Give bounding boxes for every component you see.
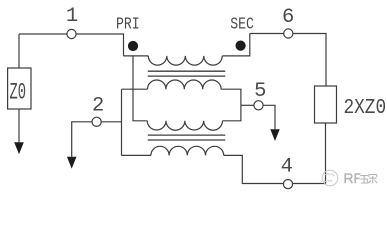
svg-text:2: 2 <box>92 94 104 117</box>
wire winding 2 right to right connector <box>221 89 241 121</box>
polarity dot PRI <box>128 41 138 51</box>
wire node 2 to rail <box>101 121 121 123</box>
watermark glyph wan <box>360 176 368 183</box>
node 4 <box>283 180 292 189</box>
wire left vertical drop to Z0 <box>18 34 20 68</box>
watermark text RF <box>345 174 360 183</box>
wire node 4 to winding 4 right end <box>224 155 284 183</box>
wire node 5 to ground arrow <box>263 105 275 129</box>
wire top-left rail from Z0 drop to node 1 <box>19 33 67 35</box>
transformer T2 secondary winding (4 arcs, bulge up) <box>151 146 224 155</box>
wire rail to winding 2 left <box>122 88 148 90</box>
svg-text:5: 5 <box>254 80 266 103</box>
wire winding 4 left end to junction rail <box>122 154 151 156</box>
wire right connector to node 5 <box>241 104 254 106</box>
svg-text:PRI: PRI <box>116 15 140 34</box>
ground arrow below Z0 <box>14 142 24 154</box>
svg-text:SEC: SEC <box>230 15 254 34</box>
transformer T1 core lines <box>148 71 226 76</box>
transformer T2 primary winding (4 arcs, bulge down) <box>147 121 222 130</box>
polarity dot SEC <box>236 41 246 51</box>
wire 2XZ0 box bottom to node 4 <box>293 123 326 184</box>
wire left junction rail (node2/W2/W4) <box>121 89 123 155</box>
node 1 <box>67 29 76 38</box>
wire SEC corner to node 6 <box>250 33 284 35</box>
wire PRI horizontal to winding 1 <box>124 55 149 57</box>
wire winding 1 to SEC corner <box>222 34 250 56</box>
svg-text:Z0: Z0 <box>10 80 27 106</box>
svg-text:2XZ0: 2XZ0 <box>344 97 387 120</box>
ground arrow below node 2 <box>67 157 77 169</box>
node 2 <box>92 117 101 126</box>
transformer T1 secondary winding (4 arcs, bulge up) <box>148 80 222 89</box>
svg-text:6: 6 <box>282 6 294 29</box>
transformer T2 core lines <box>148 135 226 140</box>
wire winding 3 left to PRI-bottom vertical <box>133 56 147 121</box>
svg-text:1: 1 <box>66 5 78 28</box>
ground arrow below node 5 <box>270 129 279 141</box>
resistor Z0 box <box>8 68 31 109</box>
wire Z0 to ground arrow <box>18 109 20 142</box>
node 6 <box>284 29 293 38</box>
wire node 6 to 2XZ0 box <box>293 34 326 87</box>
watermark glyph jia <box>369 175 377 184</box>
wire node 1 to PRI corner <box>76 34 123 56</box>
svg-text:4: 4 <box>281 155 293 178</box>
wire node 2 to ground arrow <box>72 122 92 157</box>
watermark stamp logo <box>322 170 338 186</box>
node 5 <box>254 101 263 110</box>
transformer T1 primary winding (4 arcs, bulge down) <box>148 56 222 65</box>
resistor 2XZ0 box <box>315 86 337 123</box>
